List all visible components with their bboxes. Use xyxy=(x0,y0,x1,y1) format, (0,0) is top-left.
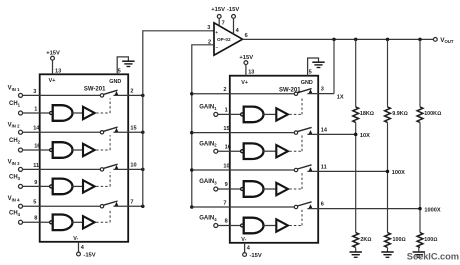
U1 pin 13 V+ lead xyxy=(52,60,54,74)
wire gate G6 to buffer xyxy=(262,150,276,152)
driver gate G7 (U2) xyxy=(241,181,264,197)
buffer B1 (U1) xyxy=(83,107,95,119)
buffer B4 (U1) xyxy=(83,216,95,228)
U1 pin 15 label xyxy=(130,125,136,131)
svg-text:-15V: -15V xyxy=(227,7,239,13)
U2 pin 9 label xyxy=(225,182,228,188)
watermark SeekIC.com xyxy=(407,252,459,262)
switch S3 (U1 channel 3) xyxy=(100,164,118,171)
svg-text:GND: GND xyxy=(301,80,313,86)
ground symbol at U2 pin 5 xyxy=(312,62,324,67)
buffer B5 (U2) xyxy=(276,108,288,120)
svg-text:+: + xyxy=(215,30,218,35)
U2 pin 13 V+ lead xyxy=(245,65,247,76)
U2 pin 13 label xyxy=(248,70,254,76)
svg-text:16: 16 xyxy=(225,144,231,150)
svg-text:+15V: +15V xyxy=(211,7,225,13)
resistor R5 100ohm xyxy=(385,233,406,248)
dashed control link S2 xyxy=(96,135,110,150)
driver gate G3 (U1) xyxy=(50,179,73,195)
input terminal VIN3 xyxy=(8,159,23,171)
resistor R4 2K xyxy=(353,233,372,248)
op-amp - input mark xyxy=(216,44,219,49)
U2 pin 5 GND hook wire xyxy=(308,58,319,76)
svg-text:13: 13 xyxy=(248,70,254,76)
svg-text:VIN 4: VIN 4 xyxy=(8,196,21,202)
wire CH4 to gate xyxy=(23,221,50,223)
svg-text:–: – xyxy=(216,44,219,49)
mux output bus wire to op-amp pin 3 xyxy=(143,31,214,206)
+15V supply terminal op-amp xyxy=(211,7,225,18)
U1 pin 2 label xyxy=(130,89,133,95)
driver gate G5 (U2) xyxy=(241,107,264,123)
wire S8 to gain tap, U2 pin 6 xyxy=(307,208,420,210)
svg-text:GND: GND xyxy=(109,79,121,85)
wire VIN2 to switch S2 xyxy=(23,131,101,133)
control terminal CH4 xyxy=(9,210,23,224)
wire CH1 to gate xyxy=(23,112,50,114)
svg-text:15: 15 xyxy=(223,126,229,132)
svg-text:V+: V+ xyxy=(241,80,248,86)
U2 pin 14 label xyxy=(321,128,328,134)
driver gate G8 (U2) xyxy=(241,218,264,234)
IC U2 SW-201 quad analog switch body xyxy=(230,76,318,243)
wire CH2 to gate xyxy=(23,149,50,151)
svg-text:VIN 1: VIN 1 xyxy=(8,85,21,91)
svg-text:16: 16 xyxy=(34,143,40,149)
+15V supply terminal U1 xyxy=(46,51,60,61)
svg-text:SeekIC.com: SeekIC.com xyxy=(407,252,459,262)
U1 V- label xyxy=(73,236,78,242)
svg-text:1: 1 xyxy=(34,106,37,112)
U2 V+ label xyxy=(241,80,248,86)
svg-text:V+: V+ xyxy=(49,78,56,84)
svg-text:CH1: CH1 xyxy=(9,101,21,107)
input terminal VIN4 xyxy=(8,196,23,208)
U2 pin 11 label xyxy=(321,165,327,171)
U1 pin 8 label xyxy=(34,216,37,222)
svg-text:GAIN1: GAIN1 xyxy=(199,105,217,111)
svg-text:5: 5 xyxy=(118,69,121,75)
node on feedback bus row 1 xyxy=(190,92,194,96)
svg-text:100Ω: 100Ω xyxy=(393,237,406,243)
svg-text:15: 15 xyxy=(130,125,136,131)
wire S4 to output bus, U1 pin 7 xyxy=(113,205,142,207)
op-amp + input mark xyxy=(215,30,218,35)
wire S3 to output bus, U1 pin 10 xyxy=(113,168,142,170)
rail wire R3 to 100ohm xyxy=(419,122,421,232)
node on feedback bus row 3 xyxy=(190,168,194,172)
wire gate G8 to buffer xyxy=(262,225,276,227)
wire GAIN3 to gate xyxy=(218,188,241,190)
input terminal VIN2 xyxy=(8,122,23,134)
node on mux output bus row 3 xyxy=(141,168,145,172)
U1 pin 1 label xyxy=(34,106,37,112)
wire S6 to gain tap, U2 pin 14 xyxy=(307,133,355,135)
U2 pin 10 label xyxy=(223,163,229,169)
driver gate G6 (U2) xyxy=(241,143,264,159)
U1 V+ label xyxy=(49,78,56,84)
wire gate G4 to buffer xyxy=(71,221,83,223)
U2 GND label xyxy=(301,80,313,86)
control terminal CH3 xyxy=(9,175,23,189)
wire feedback bus to U2 pin 15 xyxy=(192,132,295,134)
output terminal VOUT xyxy=(433,37,454,44)
svg-text:3: 3 xyxy=(321,87,324,93)
buffer B8 (U2) xyxy=(276,219,288,231)
U1 label SW-201 xyxy=(84,87,106,93)
node output rail / 9.9K rail xyxy=(386,38,390,42)
node on feedback bus row 4 xyxy=(190,205,194,209)
resistor R2 9.9K xyxy=(385,107,408,123)
buffer B7 (U2) xyxy=(276,183,288,195)
svg-text:+15V: +15V xyxy=(239,55,253,61)
svg-text:11: 11 xyxy=(321,165,327,171)
svg-text:14: 14 xyxy=(33,126,40,132)
wire gate G7 to buffer xyxy=(262,188,276,190)
op-amp pin 4 lead xyxy=(233,18,235,34)
svg-text:1X: 1X xyxy=(337,95,344,101)
U1 pin 9 label xyxy=(34,180,37,186)
control terminal GAIN4 xyxy=(199,216,218,228)
op-amp pin 7 label xyxy=(222,20,225,26)
node on feedback bus row 2 xyxy=(190,131,194,135)
U2 pin 6 label xyxy=(321,202,324,208)
wire GAIN1 to gate xyxy=(218,113,241,115)
wire gate G5 to buffer xyxy=(262,113,276,115)
svg-text:VIN 3: VIN 3 xyxy=(8,159,21,165)
wire S5 to gain tap, U2 pin 3 xyxy=(307,93,334,95)
svg-text:100Ω: 100Ω xyxy=(424,237,437,243)
svg-text:11: 11 xyxy=(33,163,39,169)
svg-text:7: 7 xyxy=(223,200,226,206)
svg-text:8: 8 xyxy=(34,216,37,222)
U2 V- label xyxy=(241,237,246,243)
op-amp pin 6 label xyxy=(245,33,248,39)
-15V supply terminal U1 xyxy=(77,252,96,259)
svg-text:VIN 2: VIN 2 xyxy=(8,122,21,128)
svg-text:8: 8 xyxy=(225,219,228,225)
switch S8 (U2 channel 4) xyxy=(294,202,312,209)
resistor R6 100ohm xyxy=(417,233,437,248)
U2 pin 4 label xyxy=(247,245,251,251)
svg-text:CH4: CH4 xyxy=(9,210,21,216)
op-amp pin 7 lead xyxy=(218,18,220,26)
wire VIN4 to switch S4 xyxy=(23,205,101,207)
control terminal CH2 xyxy=(9,138,23,152)
U2 pin 4 V- lead xyxy=(244,243,246,253)
rail wire VOUT to R3 xyxy=(419,39,421,107)
U1 pin 14 label xyxy=(33,126,40,132)
svg-text:10X: 10X xyxy=(360,133,370,139)
svg-text:5: 5 xyxy=(309,70,312,76)
label 1X xyxy=(337,95,344,101)
svg-text:2KΩ: 2KΩ xyxy=(360,237,371,243)
control terminal GAIN2 xyxy=(199,141,218,153)
wire GAIN4 to gate xyxy=(218,225,241,227)
control terminal GAIN3 xyxy=(199,179,218,191)
svg-text:GAIN2: GAIN2 xyxy=(199,141,217,147)
U1 pin 16 label xyxy=(34,143,40,149)
svg-text:3: 3 xyxy=(207,25,210,31)
wire feedback bus to U2 pin 2 xyxy=(192,93,295,95)
U1 pin 4 label xyxy=(81,245,85,251)
svg-text:6: 6 xyxy=(321,202,324,208)
op-amp pin 4 label xyxy=(236,28,240,34)
svg-text:-15V: -15V xyxy=(83,253,95,259)
dashed control link S5 xyxy=(289,97,302,115)
svg-text:7: 7 xyxy=(222,20,225,26)
svg-text:+15V: +15V xyxy=(46,51,60,57)
ground symbol at U1 pin 5 xyxy=(122,61,134,66)
U2 pin 3 label xyxy=(321,87,324,93)
feedback bus wire to op-amp pin 2 xyxy=(192,45,214,207)
ground symbol below R6 xyxy=(413,248,425,258)
rail wire VOUT to R1 xyxy=(355,39,357,107)
U1 pin 3 label xyxy=(33,89,36,95)
wire feedback bus to U2 pin 7 xyxy=(192,206,295,208)
svg-text:2: 2 xyxy=(223,87,226,93)
U1 pin 11 label xyxy=(33,163,39,169)
svg-text:9.9KΩ: 9.9KΩ xyxy=(392,111,408,117)
wire S7 to gain tap, U2 pin 11 xyxy=(307,170,387,172)
svg-text:GAIN4: GAIN4 xyxy=(199,216,217,222)
svg-text:-15V: -15V xyxy=(250,253,262,259)
svg-text:3: 3 xyxy=(33,89,36,95)
svg-text:CH3: CH3 xyxy=(9,175,21,181)
op-amp pin 2 label xyxy=(208,39,211,45)
dashed control link S1 xyxy=(96,98,110,113)
switch S7 (U2 channel 3) xyxy=(294,165,312,172)
dashed control link S4 xyxy=(96,209,110,222)
U2 pin 7 label xyxy=(223,200,226,206)
dashed control link S7 xyxy=(289,173,302,189)
U1 pin 5 label xyxy=(118,69,121,75)
switch S4 (U1 channel 4) xyxy=(100,201,118,208)
U2 pin 2 label xyxy=(223,87,226,93)
wire CH3 to gate xyxy=(23,185,50,187)
resistor R3 100K xyxy=(417,107,441,123)
svg-text:7: 7 xyxy=(130,199,133,205)
svg-text:OP-02: OP-02 xyxy=(217,37,231,42)
U1 pin 4 V- lead xyxy=(78,242,80,252)
svg-text:100KΩ: 100KΩ xyxy=(424,111,441,117)
node 10X tap xyxy=(354,133,358,137)
wire gate G2 to buffer xyxy=(71,149,83,151)
driver gate G2 (U1) xyxy=(50,142,73,158)
-15V supply terminal op-amp xyxy=(227,7,239,18)
svg-text:1000X: 1000X xyxy=(424,207,440,213)
resistor R1 18K xyxy=(353,107,374,123)
label 10X xyxy=(360,133,370,139)
node output rail / 100K rail xyxy=(418,38,422,42)
label 100X xyxy=(392,170,405,176)
svg-text:SW-201: SW-201 xyxy=(84,87,106,93)
input terminal VIN1 xyxy=(8,85,23,97)
op-amp label OP-02 xyxy=(217,37,231,42)
label 1000X xyxy=(424,207,440,213)
svg-text:6: 6 xyxy=(245,33,248,39)
node on mux output bus row 1 xyxy=(141,94,145,98)
rail wire R1 to 2K xyxy=(355,122,357,232)
switch S6 (U2 channel 2) xyxy=(294,127,312,134)
buffer B2 (U1) xyxy=(83,144,95,156)
switch S2 (U1 channel 2) xyxy=(100,127,118,134)
wire S2 to output bus, U1 pin 15 xyxy=(113,131,142,133)
svg-text:9: 9 xyxy=(225,182,228,188)
dashed control link S3 xyxy=(96,172,110,186)
U1 pin 7 label xyxy=(130,199,133,205)
wire VIN3 to switch S3 xyxy=(23,168,101,170)
node on mux output bus row 2 xyxy=(141,131,145,135)
node 1000X tap xyxy=(418,207,422,211)
svg-text:13: 13 xyxy=(55,69,61,75)
svg-text:100X: 100X xyxy=(392,170,405,176)
svg-text:9: 9 xyxy=(34,180,37,186)
svg-text:CH2: CH2 xyxy=(9,138,21,144)
wire feedback bus to U2 pin 10 xyxy=(192,169,295,171)
U1 pin 5 GND hook wire xyxy=(117,57,128,74)
svg-text:GAIN3: GAIN3 xyxy=(199,179,217,185)
svg-text:V-: V- xyxy=(241,237,246,243)
U1 GND label xyxy=(109,79,121,85)
IC U1 SW-201 quad analog switch body xyxy=(40,74,129,242)
1X feedback rail wire xyxy=(333,39,335,93)
ground symbol below R4 xyxy=(350,248,362,258)
op-amp pin 3 label xyxy=(207,25,210,31)
U2 pin 1 label xyxy=(225,108,228,114)
svg-text:10: 10 xyxy=(130,163,136,169)
dashed control link S8 xyxy=(289,210,302,226)
wire S1 to output bus, U1 pin 2 xyxy=(113,94,142,96)
rail wire R2 to 100ohm xyxy=(387,122,389,232)
wire gate G3 to buffer xyxy=(71,185,83,187)
buffer B6 (U2) xyxy=(276,145,288,157)
-15V supply terminal U2 xyxy=(243,253,262,260)
U2 pin 5 label xyxy=(309,70,312,76)
svg-text:1: 1 xyxy=(225,108,228,114)
dashed control link S6 xyxy=(289,135,302,151)
svg-text:10: 10 xyxy=(223,163,229,169)
wire GAIN2 to gate xyxy=(218,150,241,152)
node output rail / 1X rail xyxy=(332,38,336,42)
node output rail / 18K rail xyxy=(354,38,358,42)
control terminal CH1 xyxy=(9,101,23,115)
switch S1 (U1 channel 1) xyxy=(100,90,118,97)
svg-text:V-: V- xyxy=(73,236,78,242)
driver gate G4 (U1) xyxy=(50,215,73,231)
driver gate G1 (U1) xyxy=(50,105,73,121)
U2 pin 16 label xyxy=(225,144,231,150)
op-amp output wire pin 6 to VOUT xyxy=(243,38,434,40)
wire VIN1 to switch S1 xyxy=(23,94,101,96)
svg-text:5: 5 xyxy=(33,200,36,206)
ground symbol below R5 xyxy=(381,248,393,258)
svg-text:14: 14 xyxy=(321,128,328,134)
control terminal GAIN1 xyxy=(199,105,218,117)
wire gate G1 to buffer xyxy=(71,112,83,114)
node 100X tap xyxy=(386,170,390,174)
+15V supply terminal U2 xyxy=(239,55,253,65)
op-amp U3 OP-02 triangle xyxy=(214,23,243,55)
switch S5 (U2 channel 1) xyxy=(294,89,312,96)
svg-text:2: 2 xyxy=(130,89,133,95)
U2 pin 15 label xyxy=(223,126,229,132)
rail wire VOUT to R2 xyxy=(387,39,389,107)
U2 pin 8 label xyxy=(225,219,228,225)
node on mux output bus row 4 xyxy=(141,204,145,208)
svg-text:18KΩ: 18KΩ xyxy=(360,111,374,117)
U2 label SW-201 xyxy=(279,88,301,94)
U1 pin 5 label xyxy=(33,200,36,206)
U1 pin 13 label xyxy=(55,69,61,75)
buffer B3 (U1) xyxy=(83,180,95,192)
U1 pin 10 label xyxy=(130,163,136,169)
